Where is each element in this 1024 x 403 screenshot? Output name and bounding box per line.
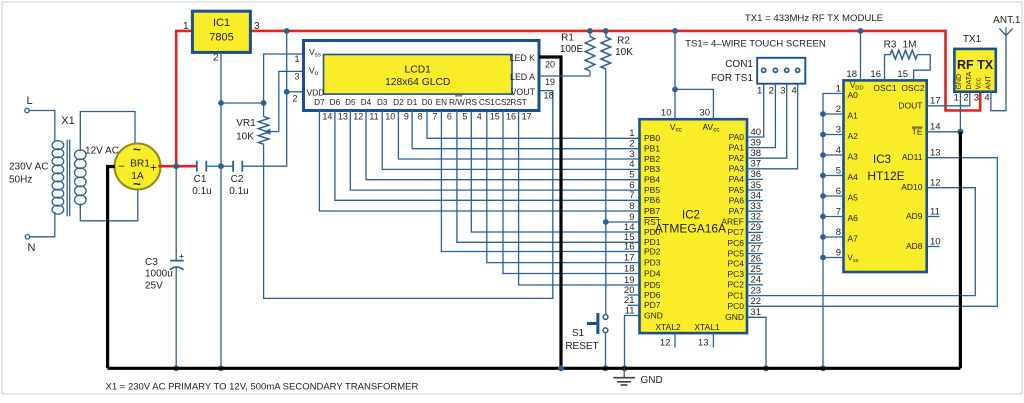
wire VR1 wiper to LCD Vo: [279, 71, 304, 131]
svg-text:OSC1: OSC1: [873, 83, 896, 93]
svg-text:12: 12: [930, 178, 941, 189]
svg-text:23: 23: [751, 285, 762, 296]
junction VR1 top: [261, 100, 267, 106]
svg-text:IC2: IC2: [682, 210, 700, 222]
wire AVcc branch: [675, 89, 713, 119]
wire Vcc supply from red rail: [674, 31, 676, 119]
svg-text:230V AC: 230V AC: [9, 162, 48, 173]
svg-text:14: 14: [322, 112, 332, 122]
wire LCD 10 to IC2 PB3: [382, 111, 639, 170]
wire TX1 GND down: [959, 91, 961, 132]
svg-text:PA2: PA2: [729, 153, 745, 163]
wire LCD 16 to IC2 PD4: [503, 111, 640, 274]
svg-text:PC2: PC2: [727, 280, 744, 290]
wire IC2 GND pin11 to rail: [625, 316, 640, 369]
wire IC3 pin stub: [823, 175, 844, 177]
svg-text:5: 5: [836, 165, 841, 176]
svg-text:13: 13: [698, 338, 709, 349]
svg-text:6: 6: [836, 186, 841, 197]
junction Vcc/AVcc: [672, 28, 678, 34]
svg-text:PC6: PC6: [727, 238, 744, 248]
wire LCD 13 to IC2 PB6: [335, 111, 640, 201]
svg-text:15: 15: [897, 69, 908, 80]
svg-text:LCD1: LCD1: [405, 65, 432, 76]
svg-text:36: 36: [751, 169, 762, 180]
junction red rail IC3 VDD: [858, 28, 864, 34]
svg-text:1: 1: [183, 21, 189, 32]
svg-text:29: 29: [751, 222, 762, 233]
wire BR1 negative to ground rail (black): [108, 167, 115, 369]
svg-text:18: 18: [544, 91, 554, 101]
svg-text:VOUT: VOUT: [511, 87, 536, 97]
svg-text:11: 11: [369, 112, 378, 122]
junction red rail R2: [603, 28, 609, 34]
svg-text:25V: 25V: [145, 281, 163, 292]
svg-text:5: 5: [629, 170, 634, 181]
svg-text:8: 8: [418, 112, 423, 122]
svg-text:PA0: PA0: [729, 132, 745, 142]
svg-text:~: ~: [133, 142, 141, 157]
wire LCD 8 to IC2 PB1: [412, 111, 639, 149]
svg-text:15: 15: [490, 112, 500, 122]
svg-text:PD5: PD5: [644, 280, 661, 290]
svg-text:2: 2: [213, 53, 219, 64]
wire LCD 6 to IC2 PD2: [441, 111, 639, 252]
svg-text:PB3: PB3: [644, 164, 660, 174]
svg-text:4: 4: [836, 145, 841, 156]
svg-text:A4: A4: [848, 172, 859, 182]
svg-text:AREF: AREF: [721, 217, 744, 227]
wire N to transformer primary bottom: [30, 212, 55, 237]
svg-text:LED A: LED A: [510, 72, 535, 82]
junction address bus: [820, 255, 826, 261]
wire C2 right to LCD VDD: [242, 31, 286, 166]
svg-text:10: 10: [661, 108, 672, 119]
node L (live terminal): [25, 108, 29, 112]
wire LCD VDD stub: [287, 91, 304, 93]
wire R1 to LCD LED A: [539, 75, 590, 77]
svg-text:PD7: PD7: [644, 300, 661, 310]
svg-text:CON1: CON1: [725, 59, 753, 70]
svg-text:PB4: PB4: [644, 175, 660, 185]
svg-text:N: N: [28, 242, 36, 254]
resistor R2 10K: [605, 31, 607, 37]
svg-text:EN: EN: [436, 98, 447, 107]
svg-text:R1: R1: [561, 33, 574, 44]
junction address bus: [820, 214, 826, 220]
svg-text:4: 4: [984, 93, 989, 104]
capacitor C3 1000u 25V: [175, 166, 177, 260]
wire IC2 GND pin31 to rail: [747, 317, 766, 368]
svg-text:8: 8: [836, 227, 841, 238]
svg-text:PB0: PB0: [644, 133, 660, 143]
wire transformer secondary bottom to BR1: [80, 190, 138, 221]
switch S1 RESET: [605, 222, 607, 314]
svg-text:A7: A7: [848, 234, 859, 244]
svg-text:37: 37: [751, 159, 762, 170]
svg-text:17: 17: [624, 252, 635, 263]
capacitor C1 0.1u: [196, 161, 198, 172]
svg-text:PD3: PD3: [644, 257, 661, 267]
svg-text:ATMEGA16A: ATMEGA16A: [655, 222, 726, 236]
svg-text:HT12E: HT12E: [867, 169, 904, 183]
junction red rail R1: [587, 28, 593, 34]
svg-text:1: 1: [954, 93, 959, 104]
svg-text:30: 30: [699, 108, 710, 119]
wire red rail up to IC1 input: [176, 31, 192, 166]
svg-text:PA3: PA3: [729, 164, 745, 174]
svg-text:0.1u: 0.1u: [229, 186, 248, 197]
wire LCD 14 to IC2 PB7: [319, 111, 639, 212]
connector CON1 for TS1: [757, 58, 805, 84]
svg-text:PD6: PD6: [644, 290, 661, 300]
svg-text:1000u: 1000u: [145, 269, 173, 280]
svg-text:A6: A6: [848, 213, 859, 223]
IC2 short stubs PD6 PD7: [627, 294, 639, 296]
svg-text:D0: D0: [422, 98, 433, 107]
svg-text:7805: 7805: [209, 32, 233, 44]
junction GND pin11 rail: [622, 365, 628, 371]
VR1 wiper arrow: [269, 131, 279, 133]
svg-text:D6: D6: [330, 98, 341, 107]
svg-text:+: +: [150, 161, 157, 175]
svg-text:L: L: [26, 95, 32, 107]
wire LCD LED K to ground rail (black): [539, 57, 561, 368]
svg-text:11: 11: [930, 206, 940, 217]
junction address bus: [820, 111, 826, 117]
svg-text:RST: RST: [510, 98, 526, 107]
svg-text:13: 13: [930, 148, 941, 159]
svg-text:18: 18: [846, 69, 857, 80]
svg-text:26: 26: [751, 253, 762, 264]
svg-text:18: 18: [624, 263, 635, 274]
junction RST node: [603, 219, 609, 225]
wire IC3 TE to TX1 GND junction: [927, 131, 961, 133]
svg-text:1: 1: [836, 83, 841, 94]
svg-text:AD10: AD10: [901, 182, 923, 192]
IC2 right short stubs: [747, 178, 763, 180]
svg-text:XTAL2: XTAL2: [655, 322, 681, 332]
IC3 address bus wire to ground: [823, 94, 844, 369]
wire LCD 9 to IC2 PB2: [398, 111, 639, 160]
svg-text:7: 7: [629, 190, 634, 201]
junction address bus: [820, 152, 826, 158]
svg-text:17: 17: [522, 112, 532, 122]
junction address bus at rail: [820, 365, 826, 371]
junction BR1+/C3: [173, 163, 179, 169]
svg-text:24: 24: [751, 275, 762, 286]
wire IC2 PC1 to IC3 AD10: [747, 188, 975, 296]
junction ground rail at x221: [218, 365, 224, 371]
svg-text:3: 3: [836, 124, 841, 135]
svg-text:8: 8: [629, 201, 634, 212]
junction IC1 pin2 / VR1 top branch: [218, 100, 224, 106]
wire VR1 bottom to LCD VOUT: [264, 91, 553, 299]
junction address bus: [820, 132, 826, 138]
svg-text:RF TX: RF TX: [957, 58, 994, 72]
wire L to transformer primary: [29, 111, 55, 143]
wire LCD 17 to IC2 PD5: [519, 111, 640, 286]
svg-text:2: 2: [769, 86, 774, 97]
svg-text:1: 1: [757, 86, 762, 97]
svg-text:GND: GND: [641, 375, 663, 386]
svg-text:PD4: PD4: [644, 268, 661, 278]
svg-text:R/W: R/W: [449, 98, 465, 107]
svg-text:D3: D3: [377, 98, 388, 107]
svg-text:4: 4: [477, 112, 482, 122]
svg-text:DATA: DATA: [966, 72, 973, 90]
antenna ANT.1: [999, 28, 1006, 35]
svg-text:22: 22: [751, 296, 762, 307]
wire IC3 pin stub: [823, 257, 844, 259]
wire TX1 ANT to antenna: [991, 36, 1006, 111]
svg-text:C2: C2: [231, 174, 244, 185]
wire IC3 DOUT to TX1 DATA: [927, 91, 970, 106]
svg-text:RS: RS: [466, 98, 478, 107]
svg-text:PB2: PB2: [644, 154, 660, 164]
svg-text:+: +: [179, 251, 185, 262]
svg-text:TS1= 4–WIRE TOUCH SCREEN: TS1= 4–WIRE TOUCH SCREEN: [685, 39, 826, 50]
svg-text:−: −: [118, 161, 125, 173]
svg-text:3: 3: [780, 86, 785, 97]
svg-text:40: 40: [751, 127, 762, 138]
svg-text:4: 4: [792, 86, 797, 97]
wire IC2 PC0 to IC3 AD11: [747, 158, 997, 307]
svg-text:IC3: IC3: [873, 154, 891, 166]
svg-text:1: 1: [629, 128, 634, 139]
wire R2 to IC2 RST: [605, 69, 607, 222]
wire TE node to ground rail (black): [959, 132, 962, 368]
svg-text:25: 25: [751, 264, 762, 275]
svg-text:16: 16: [870, 69, 881, 80]
svg-text:R3: R3: [884, 40, 897, 51]
svg-text:PB7: PB7: [644, 206, 660, 216]
wire VR1 top to LCD Vss: [264, 54, 304, 103]
svg-text:12V AC: 12V AC: [85, 146, 119, 157]
svg-text:A1: A1: [848, 111, 859, 121]
svg-text:16: 16: [506, 112, 516, 122]
transformer X1: [52, 140, 86, 217]
svg-text:14: 14: [930, 122, 941, 133]
svg-text:S1: S1: [572, 328, 585, 339]
svg-text:A0: A0: [848, 90, 859, 100]
wire IC3 pin stub: [823, 113, 844, 115]
svg-text:CS1: CS1: [479, 98, 495, 107]
svg-text:GND: GND: [644, 310, 663, 320]
junction TE/GND: [957, 129, 963, 135]
svg-text:16: 16: [624, 241, 635, 252]
junction LCD VDD stub: [284, 89, 290, 95]
wire IC3 pin stub: [823, 154, 844, 156]
svg-text:9: 9: [404, 112, 409, 122]
wire LCD 11 to IC2 PB4: [366, 111, 640, 180]
svg-text:17: 17: [930, 96, 941, 107]
wire transformer secondary top to BR1: [80, 112, 135, 152]
IC3 HT12E encoder: [844, 80, 927, 272]
svg-text:2: 2: [836, 104, 841, 115]
svg-text:TX1 = 433MHz RF TX MODULE: TX1 = 433MHz RF TX MODULE: [745, 13, 883, 24]
svg-text:VDD: VDD: [307, 87, 325, 97]
junction S1 ground: [603, 365, 609, 371]
svg-text:100E: 100E: [560, 44, 584, 55]
svg-text:1: 1: [294, 54, 299, 64]
svg-text:20: 20: [545, 60, 555, 70]
svg-text:GND: GND: [725, 312, 744, 322]
svg-text:19: 19: [545, 77, 555, 87]
TX1 RF TX module: [954, 49, 995, 92]
svg-text:3: 3: [974, 93, 979, 104]
junction address bus: [820, 173, 826, 179]
svg-text:7: 7: [432, 112, 437, 122]
svg-text:RST: RST: [644, 217, 661, 227]
svg-text:34: 34: [751, 190, 762, 201]
svg-text:PC7: PC7: [727, 227, 744, 237]
svg-text:38: 38: [751, 148, 762, 159]
svg-text:PA6: PA6: [729, 195, 745, 205]
svg-text:AD8: AD8: [906, 241, 923, 251]
svg-text:VR1: VR1: [236, 118, 256, 129]
wire LCD 15 to IC2 PD3: [487, 111, 640, 263]
svg-text:PA1: PA1: [729, 142, 745, 152]
svg-text:13: 13: [338, 112, 348, 122]
svg-text:CS2: CS2: [495, 98, 511, 107]
svg-text:50Hz: 50Hz: [9, 175, 32, 186]
svg-text:3: 3: [294, 72, 299, 82]
svg-text:AD9: AD9: [906, 211, 923, 221]
wire IC3 pin stub: [823, 216, 844, 218]
svg-text:XTAL1: XTAL1: [694, 322, 720, 332]
svg-text:BR1: BR1: [130, 159, 150, 170]
svg-text:PA7: PA7: [729, 206, 745, 216]
LCD1 128x64 GLCD module: [304, 41, 540, 111]
svg-text:12: 12: [353, 112, 363, 122]
svg-text:X1: X1: [61, 115, 74, 127]
wire IC3 pin stub: [823, 195, 844, 197]
wire red rail IC1 out to TX1 Vcc: [250, 31, 980, 111]
potentiometer VR1 10K: [221, 102, 264, 104]
ground symbol: [623, 368, 625, 377]
wire LCD 5 to IC2 PD1: [457, 111, 640, 243]
svg-text:A2: A2: [848, 131, 859, 141]
svg-text:10: 10: [930, 236, 941, 247]
svg-text:31: 31: [751, 307, 762, 318]
svg-text:6: 6: [447, 112, 452, 122]
svg-text:28: 28: [751, 233, 762, 244]
svg-text:PB6: PB6: [644, 195, 660, 205]
resistor R3 1M: [884, 55, 886, 81]
svg-text:3: 3: [254, 21, 260, 32]
svg-text:DOUT: DOUT: [898, 100, 922, 110]
svg-text:PA5: PA5: [729, 185, 745, 195]
svg-text:1M: 1M: [903, 40, 917, 51]
svg-text:9: 9: [836, 247, 841, 258]
svg-text:LED K: LED K: [510, 53, 536, 63]
svg-text:0.1u: 0.1u: [192, 186, 211, 197]
svg-text:128x64 GLCD: 128x64 GLCD: [385, 77, 450, 88]
svg-text:RESET: RESET: [565, 341, 598, 352]
IC1 7805 voltage regulator: [192, 11, 250, 52]
svg-text:X1 = 230V AC PRIMARY TO 12V, 5: X1 = 230V AC PRIMARY TO 12V, 500mA SECON…: [106, 382, 419, 393]
wire IC3 pin stub: [823, 134, 844, 136]
junction C3 at ground rail: [173, 365, 179, 371]
junction address bus: [820, 193, 826, 199]
junction LED K wire at rail: [558, 365, 564, 371]
capacitor C2 0.1u: [221, 165, 233, 167]
svg-text:IC1: IC1: [213, 17, 230, 29]
svg-text:R2: R2: [617, 36, 630, 47]
op IC2 ATMEGA16A microcontroller: [640, 119, 748, 333]
junction address bus: [820, 234, 826, 240]
wire LCD 4 to IC2 PD0: [471, 111, 639, 233]
wires CON1 to IC2 PA0..PA3: [747, 84, 764, 137]
svg-text:PA4: PA4: [729, 174, 745, 184]
svg-text:FOR TS1: FOR TS1: [711, 73, 753, 84]
svg-text:TX1: TX1: [963, 34, 982, 45]
wire RST node to IC2 pin 9: [606, 221, 640, 223]
svg-text:PC5: PC5: [727, 248, 744, 258]
junction C1-C2 node: [218, 163, 224, 169]
svg-text:PC4: PC4: [727, 258, 744, 268]
svg-text:A5: A5: [848, 193, 859, 203]
svg-text:11: 11: [625, 305, 635, 316]
svg-text:10: 10: [385, 112, 395, 122]
junction GND pin31 rail: [763, 365, 769, 371]
svg-text:ANT.1: ANT.1: [993, 15, 1021, 26]
svg-text:PC1: PC1: [727, 290, 744, 300]
svg-text:D4: D4: [361, 98, 372, 107]
svg-text:D7: D7: [314, 98, 325, 107]
svg-text:PD0: PD0: [644, 227, 661, 237]
svg-text:A3: A3: [848, 152, 859, 162]
resistor R1 100E: [589, 31, 591, 37]
svg-text:D2: D2: [393, 98, 404, 107]
svg-text:2: 2: [292, 94, 297, 104]
svg-text:33: 33: [751, 201, 762, 212]
svg-text:C1: C1: [194, 174, 207, 185]
svg-text:39: 39: [751, 137, 762, 148]
node N (neutral terminal): [25, 235, 29, 239]
svg-text:AD11: AD11: [902, 152, 923, 162]
bridge rectifier BR1 1A: [115, 144, 161, 190]
svg-text:PC3: PC3: [727, 269, 744, 279]
svg-text:Vcc: Vcc: [976, 77, 983, 89]
svg-text:D1: D1: [407, 98, 418, 107]
IC3 AD9 AD8 stubs: [927, 216, 940, 218]
svg-text:ANT: ANT: [986, 75, 993, 90]
svg-text:10K: 10K: [236, 132, 254, 143]
svg-text:1A: 1A: [131, 171, 144, 182]
svg-text:5: 5: [462, 112, 467, 122]
svg-text:OSC2: OSC2: [901, 83, 924, 93]
svg-text:PC0: PC0: [727, 301, 744, 311]
svg-text:PD2: PD2: [644, 246, 661, 256]
svg-text:C3: C3: [145, 257, 158, 268]
wire LCD 12 to IC2 PB5: [350, 111, 639, 191]
svg-text:D5: D5: [345, 98, 356, 107]
svg-text:PB1: PB1: [644, 144, 660, 154]
svg-text:7: 7: [836, 206, 841, 217]
svg-text:2: 2: [963, 93, 968, 104]
wire LCD 7 to IC2 PB0: [427, 111, 640, 139]
svg-text:PB5: PB5: [644, 185, 660, 195]
wire BR1 + to C1 (red): [158, 165, 197, 168]
svg-text:10K: 10K: [615, 47, 633, 58]
junction red rail / LCD VDD branch: [284, 28, 290, 34]
svg-text:GND: GND: [956, 74, 963, 90]
svg-text:35: 35: [751, 180, 762, 191]
wire IC3 VDD from red rail: [860, 31, 862, 81]
overline for R/W: [455, 95, 462, 97]
